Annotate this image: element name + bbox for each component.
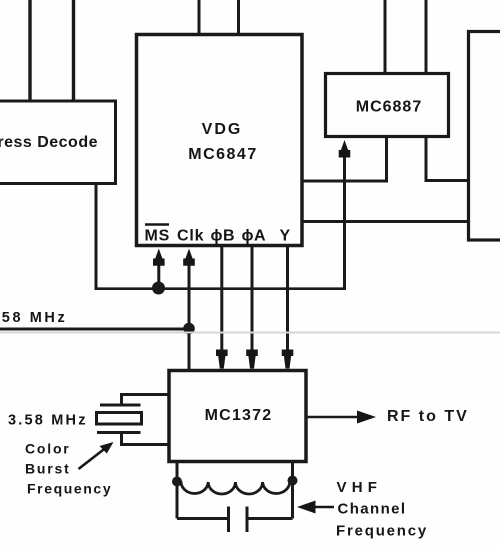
capacitor C1 left plate (227, 507, 230, 533)
wire bus line 2 into Address Decode top (72, 0, 75, 102)
block MC1372 modulator (169, 371, 306, 462)
wire MC1372 bottom left drop (176, 462, 179, 519)
arrow Y into MC1372 (282, 350, 294, 369)
wire horizontal net to MS and MC6887 (95, 287, 347, 290)
block at right edge (partial) (469, 32, 500, 241)
wire MC6887 bottom drop 1 (385, 137, 388, 182)
arrow phiB into MC1372 (216, 350, 228, 369)
arrow phiA into MC1372 (246, 350, 258, 369)
wire MC1372 bottom right drop (291, 462, 294, 519)
arrow into VDG Clk pin (183, 249, 195, 266)
wire MC6887 bottom drop 2 (425, 137, 428, 181)
svg-text:Frequency: Frequency (336, 523, 428, 540)
svg-text:Frequency: Frequency (27, 481, 112, 497)
crystal Y1 body (97, 413, 142, 425)
svg-text:Y: Y (280, 228, 291, 245)
wire MS stem (157, 261, 160, 288)
block VDG MC6847 (137, 35, 303, 246)
svg-text:VHF: VHF (337, 479, 383, 496)
wire arrow tail color burst (78, 463, 81, 465)
arrow into VDG MS pin (153, 249, 165, 266)
wire Clk stem down to MC1372 (188, 261, 191, 371)
svg-text:Color: Color (25, 441, 71, 457)
node junction on Clk line (3.58 MHz) (183, 323, 195, 335)
node coil right junction (288, 476, 298, 486)
crystal Y1 bottom plate (97, 431, 141, 434)
wire into MC6887 top 1 (384, 0, 387, 74)
wire 3.58 MHz clock line from left (0, 328, 189, 331)
svg-text:Clk: Clk (177, 228, 204, 245)
wire phiA down to MC1372 (251, 246, 254, 369)
wire horizontal VDG right to MC6887 drop (302, 180, 388, 183)
wire horizontal VDG right to right block (302, 220, 469, 223)
wire into VDG top 2 (237, 0, 240, 35)
wire phiB down to MC1372 (220, 246, 223, 369)
svg-text:VDG: VDG (202, 121, 243, 138)
wire from Address Decode bottom (95, 184, 98, 289)
node junction on MS line (152, 282, 165, 295)
svg-text:3.58 MHz: 3.58 MHz (0, 310, 67, 326)
wire into MC6887 top 2 (425, 0, 428, 74)
block MC6887 buffer (326, 74, 449, 137)
wire bus line 1 into Address Decode top (28, 0, 31, 102)
svg-text:MC6847: MC6847 (188, 146, 257, 163)
svg-text:ϕA: ϕA (242, 228, 267, 245)
crystal Y1 top plate (100, 404, 141, 407)
wire tank bottom left (177, 517, 227, 520)
svg-text:RF to TV: RF to TV (387, 408, 469, 425)
wire horizontal to right block (425, 179, 469, 182)
svg-text:ϕB: ϕB (211, 228, 236, 245)
svg-text:Address Decode: Address Decode (0, 134, 98, 151)
node coil left junction (172, 477, 182, 487)
wire Y down to MC1372 (286, 246, 289, 369)
crystal Y1 top lead (122, 395, 170, 406)
arrow shaft color burst (79, 448, 106, 469)
capacitor C1 right plate (246, 507, 249, 533)
svg-text:Burst: Burst (25, 461, 71, 477)
arrow from Color Burst label to crystal (100, 442, 114, 454)
svg-text:Channel: Channel (338, 501, 407, 518)
arrow RF to TV (357, 411, 376, 424)
arrow up into MC6887 (339, 140, 351, 158)
svg-text:3.58 MHz: 3.58 MHz (8, 413, 88, 429)
wire up into MC6887 bottom (343, 155, 346, 290)
wire into VDG top 1 (198, 0, 201, 35)
block Address Decode (0, 101, 116, 184)
svg-text:MC6887: MC6887 (356, 99, 422, 116)
faint scan line artifact (0, 332, 500, 334)
svg-text:MS: MS (145, 228, 171, 245)
wire RF output (306, 416, 360, 419)
crystal Y1 bottom lead (122, 433, 170, 445)
arrow shaft VHF channel (310, 506, 334, 509)
inductor L1 VHF coil (181, 481, 290, 494)
wire tank bottom right (249, 517, 293, 520)
svg-text:MC1372: MC1372 (205, 407, 273, 424)
arrow VHF channel to tank (297, 501, 316, 514)
